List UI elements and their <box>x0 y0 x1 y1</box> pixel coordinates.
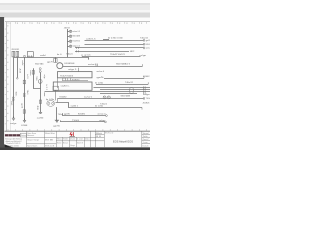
inline connector on W5 <box>39 100 41 103</box>
svg-text:Datum: Datum <box>143 144 149 147</box>
svg-text:ws/sw 0: ws/sw 0 <box>84 96 93 98</box>
wire bus H (y98) <box>58 98 144 100</box>
svg-text:E204E2: E204E2 <box>60 96 68 98</box>
wire from gateway to F234 <box>55 90 57 100</box>
svg-text:EOS 2.0: EOS 2.0 <box>105 133 114 135</box>
title block vertical separators <box>26 131 142 147</box>
wire bus E <box>82 56 141 58</box>
svg-text:1 von: 1 von <box>143 142 149 144</box>
frame top ruler ticks <box>8 22 147 24</box>
frame bottom ruler line <box>5 130 151 132</box>
fuse SB4 symbol <box>69 45 71 47</box>
svg-text:Gepr: Gepr <box>70 144 75 147</box>
svg-text:Zust Z: Zust Z <box>143 138 150 141</box>
svg-text:E204E2: E204E2 <box>78 114 86 116</box>
inline connector 2 on W3 <box>23 110 25 113</box>
end hook bus I <box>141 107 143 109</box>
inline fuse on W4 <box>32 71 34 75</box>
wire CAN low <box>45 91 151 93</box>
small framed cell beside company <box>20 133 26 137</box>
lock unit F234 cluster <box>47 101 55 107</box>
svg-text:T10k: T10k <box>146 98 150 100</box>
connector hook on motor wire <box>96 64 97 67</box>
label on bus A wire <box>103 39 109 40</box>
end hook motor wire <box>142 64 144 66</box>
svg-text:Blatt: Blatt <box>96 132 103 135</box>
end arrow bus H <box>144 97 145 99</box>
svg-text:E204: E204 <box>146 44 150 46</box>
wire box left leg <box>57 78 59 88</box>
svg-text:T40a/1: T40a/1 <box>26 90 28 95</box>
white schematic page <box>4 18 150 149</box>
gateway box J533 <box>53 82 92 90</box>
fuse SB3 symbol <box>69 40 71 42</box>
svg-text:1 von: 1 von <box>77 139 84 141</box>
svg-text:Gepr Gepr: Gepr Gepr <box>27 138 39 141</box>
relay plate box <box>27 52 33 57</box>
end hook bus G <box>143 76 145 78</box>
connector T10k marks on bus C/D <box>77 47 79 52</box>
svg-text:J519J51: J519J51 <box>11 49 20 51</box>
svg-text:T40a/12: T40a/12 <box>125 82 134 84</box>
zone numbers left ruler <box>7 25 8 121</box>
wire column W5 <box>40 73 42 113</box>
motor V1 circle <box>57 63 63 69</box>
connector T2 pair <box>39 68 41 73</box>
svg-text:gr/l: gr/l <box>47 61 53 64</box>
svg-text:ro/ge: ro/ge <box>99 119 106 122</box>
svg-text:ro/ge: ro/ge <box>43 74 46 79</box>
terminal end bus K <box>105 121 107 123</box>
frame left ruler line <box>5 22 7 132</box>
wire bus F <box>96 84 148 86</box>
connector ticks on CAN group right <box>144 86 146 94</box>
wire bus D <box>75 51 129 53</box>
fuse SB2 branch <box>67 36 69 38</box>
wire bus A (top) <box>85 40 144 42</box>
wire CAN low left jog <box>44 92 46 96</box>
wire F234 to ground <box>56 107 58 120</box>
svg-text:T10k/5T10k/5: T10k/5T10k/5 <box>60 75 74 77</box>
continuation arrow bus A <box>144 39 145 41</box>
continuation arrow bus B <box>144 43 145 45</box>
svg-text:ro/ge: ro/ge <box>10 122 17 125</box>
svg-text:ro/ge: ro/ge <box>143 93 150 96</box>
wire: battery feed vertical <box>67 29 69 57</box>
svg-text:br 0.5b: br 0.5b <box>46 98 55 101</box>
wire bus K (y121.8) <box>60 121 104 123</box>
svg-text:sw/bl: sw/bl <box>21 60 23 66</box>
svg-text:Benan: Benan <box>63 143 69 145</box>
svg-text:T10k/5: T10k/5 <box>72 120 80 122</box>
wire feed line 30 horizontal <box>14 58 89 60</box>
svg-text:SB22: SB22 <box>55 120 60 122</box>
inner frame vertical <box>10 22 12 132</box>
wire CAN mid <box>100 89 150 91</box>
svg-text:T40a/1: T40a/1 <box>66 54 73 56</box>
svg-text:Bl Bl: Bl Bl <box>96 136 102 138</box>
terminal on W2 <box>17 78 19 80</box>
title block bottom line <box>5 147 151 149</box>
wire column W3 <box>24 57 26 120</box>
fuse S1 <box>12 51 15 57</box>
svg-text:E204E: E204E <box>21 125 27 127</box>
svg-text:gr/li: gr/li <box>64 112 71 115</box>
svg-text:J519J: J519J <box>64 28 70 30</box>
left tick bus K <box>59 120 61 122</box>
connector pair on W3 <box>23 93 25 97</box>
ground 367 <box>12 117 15 121</box>
svg-text:Bl Bl: Bl Bl <box>45 139 54 141</box>
wire bus B <box>85 44 144 46</box>
wire stub below M circle <box>55 57 57 62</box>
fuse S3 on stub <box>54 58 57 62</box>
svg-text:sw/bl: sw/bl <box>37 117 44 119</box>
zone numbers top ruler <box>10 23 143 24</box>
svg-text:Blatt Blat: Blatt Blat <box>45 132 55 135</box>
svg-text:ws/s: ws/s <box>146 48 150 50</box>
svg-text:ws/sw 0: ws/sw 0 <box>88 64 97 66</box>
svg-text:EOS 2.0 E: EOS 2.0 E <box>45 146 55 148</box>
terminal end bus J <box>106 115 108 117</box>
svg-text:Name: Name <box>57 143 62 145</box>
wire CAN high <box>94 87 151 89</box>
frame top ruler line <box>5 21 150 23</box>
continuation arrow bus C <box>144 47 145 49</box>
svg-text:Datum: Datum <box>21 134 26 137</box>
svg-text:br 0.5: br 0.5 <box>26 74 29 79</box>
wire bus C <box>75 47 144 49</box>
horn H1 circle <box>38 80 42 84</box>
dark viewer background left strip <box>0 17 4 150</box>
wire bus J (y115.5) <box>63 113 106 115</box>
end tick bus F <box>147 82 149 84</box>
svg-text:ro/ge: ro/ge <box>140 54 148 57</box>
svg-text:SB22 5AS: SB22 5AS <box>35 62 44 65</box>
svg-text:T10k/5T10k/5T1: T10k/5T10k/5T1 <box>110 54 126 56</box>
diode pair on bus H <box>103 96 110 99</box>
frame left ruler ticks <box>5 29 7 124</box>
svg-text:Telefon 05361: Telefon 05361 <box>8 145 19 147</box>
svg-text:ws/sw 0.: ws/sw 0. <box>98 113 107 115</box>
svg-text:EOS Aktuell EOS: EOS Aktuell EOS <box>113 139 133 143</box>
wire box feed <box>78 68 80 72</box>
wire CAN aux <box>100 93 137 95</box>
svg-text:ws/sw 0: ws/sw 0 <box>97 71 105 73</box>
connector ring on CAN pair <box>129 87 133 93</box>
connector pair on W1 <box>12 97 14 101</box>
svg-text:gr/l: gr/l <box>146 39 150 42</box>
fuse S2 <box>16 51 19 57</box>
svg-text:ws/sw 0.3: ws/sw 0.3 <box>72 31 80 33</box>
control unit J519 box <box>58 72 93 78</box>
wire bus H left stub <box>57 98 59 102</box>
fuse SB2 symbol <box>69 35 71 37</box>
fuse SB4 branch <box>67 46 69 48</box>
ground point W5 <box>39 112 42 113</box>
svg-text:Norm Norm: Norm Norm <box>27 145 37 148</box>
wire column W1 <box>13 57 15 118</box>
wire bus G short right <box>104 78 144 80</box>
svg-text:sw/bl 1: sw/bl 1 <box>71 106 79 108</box>
svg-text:SB22 5ASB: SB22 5ASB <box>121 95 131 98</box>
svg-text:br 0.5b: br 0.5b <box>95 82 104 85</box>
svg-text:sw/bl: sw/bl <box>40 55 46 57</box>
svg-text:Zust: Zust <box>70 138 76 141</box>
svg-text:T10k/5T10: T10k/5T10 <box>72 41 80 43</box>
wire bus I stepped <box>56 103 143 108</box>
inline connector on W3 <box>23 80 25 84</box>
svg-text:gr/li: gr/li <box>53 124 60 127</box>
svg-text:Norm N: Norm N <box>77 142 83 145</box>
dark viewer background bottom strip <box>0 148 150 150</box>
fuse SB1 branch <box>67 31 69 33</box>
svg-text:sw/bl 1.: sw/bl 1. <box>61 86 70 88</box>
svg-text:SB22 5: SB22 5 <box>15 92 17 97</box>
svg-text:SB22 5ASB: SB22 5ASB <box>72 35 80 38</box>
red release stamp <box>70 132 73 137</box>
svg-text:E204E2: E204E2 <box>143 76 150 78</box>
svg-text:E204E204E: E204E204E <box>65 63 75 65</box>
svg-text:gr/li: gr/li <box>20 103 23 108</box>
page corner dark triangle bottom-left <box>4 144 14 148</box>
svg-text:Stroml: Stroml <box>143 132 150 135</box>
frame bottom ruler ticks <box>8 129 147 131</box>
title block horizontal separators <box>26 134 150 144</box>
svg-text:SB22: SB22 <box>130 51 135 53</box>
viewer toolbar band <box>0 0 150 3</box>
svg-text:T10k/5: T10k/5 <box>35 76 37 81</box>
ground point F234 <box>55 120 58 122</box>
svg-text:T10k/5: T10k/5 <box>10 101 12 106</box>
wire column W2 <box>17 57 19 77</box>
wire from motor V1 to right <box>63 66 143 68</box>
ground 81 <box>23 119 26 123</box>
svg-text:br 0.5br 0.5br: br 0.5br 0.5br <box>108 37 123 40</box>
junction node on line 30 <box>24 55 26 57</box>
svg-text:SB22 5ASB22 5: SB22 5ASB22 5 <box>116 62 131 65</box>
inner connector box <box>53 86 58 90</box>
svg-text:gr 0.5: gr 0.5 <box>85 54 92 57</box>
fuse SB1 symbol <box>69 30 71 32</box>
company name maroon text <box>5 134 20 136</box>
svg-text:bl 0.3: bl 0.3 <box>45 85 47 91</box>
svg-text:J519J51: J519J51 <box>72 80 81 82</box>
svg-text:T40a/1: T40a/1 <box>100 104 108 106</box>
svg-text:Benannt: Benannt <box>27 134 34 137</box>
svg-text:sw/bl 1.5: sw/bl 1.5 <box>86 39 96 41</box>
text under stamp <box>70 136 76 137</box>
svg-text:J519J5: J519J5 <box>142 103 150 105</box>
connector pin row under box <box>62 78 88 81</box>
svg-text:gr/li: gr/li <box>97 76 105 79</box>
wire column W4 <box>34 68 41 88</box>
svg-text:ro/ge 2.: ro/ge 2. <box>68 68 77 71</box>
svg-text:ws/sw: ws/sw <box>29 70 31 75</box>
fuse SB3 branch <box>67 41 69 43</box>
